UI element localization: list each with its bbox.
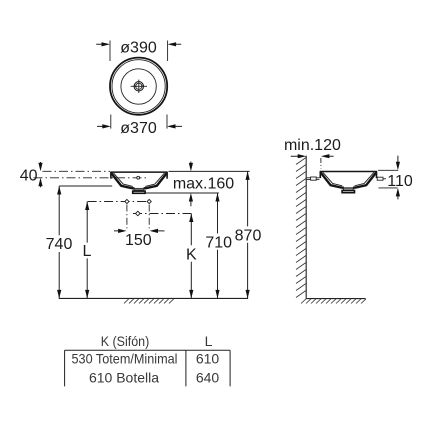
rim top extension line to right [169,170,250,172]
svg-text:530 Totem/Minimal: 530 Totem/Minimal [72,350,178,366]
svg-text:610 Botella: 610 Botella [89,370,159,386]
drain symbol [131,80,147,93]
bowl bottom circle [121,69,156,104]
svg-text:870: 870 [235,228,262,245]
basin rim inner edge circle [112,60,165,113]
basin outer rim circle [110,58,167,115]
svg-text:L: L [83,243,92,260]
basin side profile [110,172,167,193]
counter lines [306,177,319,179]
drain centerline [133,213,191,215]
floor line [59,297,248,299]
fixing hole diamond right [147,199,151,203]
fixing holes centerline [88,201,152,203]
bracket right [377,177,383,180]
svg-text:K (Sifón): K (Sifón) [101,333,150,349]
floor hatching right [301,299,366,304]
centerline rim level [43,170,111,172]
dim K [190,214,192,299]
svg-text:110: 110 [387,173,413,190]
dim 110 [378,170,398,188]
floor line right [306,298,365,300]
svg-text:max.160: max.160 [173,176,234,193]
dim 710 [217,193,219,298]
svg-text:740: 740 [46,236,73,253]
floor hatching [124,299,174,304]
dim max160 arrows [190,162,192,207]
dim min120 arrows [291,155,334,157]
vertical centerlines from holes [126,205,128,229]
basin side profile right [320,171,377,192]
svg-text:610: 610 [196,350,220,366]
counter line [59,185,112,187]
wall line [305,156,307,299]
dim L [86,202,88,299]
svg-text:L: L [205,333,213,349]
svg-text:640: 640 [196,370,220,386]
bracket left [311,177,317,180]
centerline overflow level [34,177,148,179]
fixing hole diamond left [125,199,129,203]
wall hatching [296,158,306,298]
overflow hole [137,176,140,179]
svg-text:150: 150 [125,232,152,249]
svg-text:710: 710 [205,235,232,252]
dim 870 [247,171,249,298]
basin bottom extension line [145,192,219,194]
svg-text:ø390: ø390 [120,40,157,57]
svg-text:min.120: min.120 [284,137,341,154]
extension line basin edge [320,158,322,169]
dim 740 [58,186,60,298]
drain diamond [136,211,141,216]
svg-text:K: K [186,246,197,263]
svg-text:ø370: ø370 [120,120,157,137]
svg-text:40: 40 [20,167,38,184]
